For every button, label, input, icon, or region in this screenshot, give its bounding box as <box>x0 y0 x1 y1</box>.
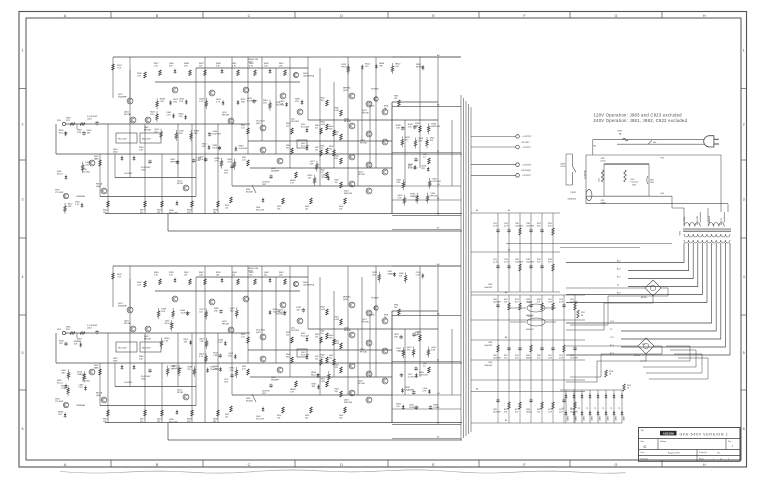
svg-text:100: 100 <box>305 418 308 420</box>
svg-text:HSx: HSx <box>653 142 656 144</box>
svg-text:51R: 51R <box>339 209 343 211</box>
svg-text:3: 3 <box>22 197 24 201</box>
svg-text:1R6: 1R6 <box>173 102 178 104</box>
svg-text:1uF/100V: 1uF/100V <box>239 148 248 150</box>
svg-text:RD-6.20H: RD-6.20H <box>301 146 310 148</box>
svg-text:1N4003: 1N4003 <box>600 416 602 421</box>
svg-text:LT1-100R: LT1-100R <box>55 192 64 194</box>
svg-text:51R: 51R <box>280 103 284 105</box>
svg-text:5.1K: 5.1K <box>169 275 174 277</box>
svg-text:H: H <box>703 463 706 467</box>
svg-text:RF7246: RF7246 <box>360 352 367 354</box>
svg-text:D: D <box>340 463 343 467</box>
svg-text:2R2: 2R2 <box>407 349 412 351</box>
svg-text:A1: A1 <box>508 209 510 212</box>
svg-text:Thermistor: Thermistor <box>630 181 639 184</box>
svg-text:R911: R911 <box>504 299 508 301</box>
svg-text:R911: R911 <box>581 312 585 314</box>
svg-text:- OUTPUT: - OUTPUT <box>522 175 532 177</box>
svg-text:PLB: PLB <box>57 329 61 331</box>
svg-text:0.1uF: 0.1uF <box>559 301 563 303</box>
svg-text:RFF9246: RFF9246 <box>344 193 352 195</box>
svg-text:AC2: AC2 <box>617 268 621 271</box>
svg-text:BR1S+: BR1S+ <box>641 297 648 299</box>
svg-text:1.8K: 1.8K <box>199 275 204 277</box>
svg-text:220: 220 <box>187 369 191 371</box>
svg-text:CA5TGR70A: CA5TGR70A <box>303 284 315 287</box>
svg-text:12kuF/63V: 12kuF/63V <box>493 357 502 359</box>
svg-text:A8: A8 <box>505 291 507 294</box>
svg-text:0.47R: 0.47R <box>335 343 340 345</box>
svg-text:RD-6.20H: RD-6.20H <box>169 213 178 215</box>
svg-text:4.1K: 4.1K <box>242 160 246 162</box>
svg-text:R985: R985 <box>537 299 541 301</box>
svg-text:22R: 22R <box>66 120 70 122</box>
svg-text:A6: A6 <box>505 336 507 339</box>
svg-text:C2: C2 <box>610 329 612 331</box>
svg-text:22R: 22R <box>66 329 70 331</box>
svg-text:15K: 15K <box>249 275 253 277</box>
svg-text:4.7K: 4.7K <box>408 126 413 128</box>
svg-text:1.8K: 1.8K <box>139 359 144 361</box>
svg-text:1N4003: 1N4003 <box>584 416 586 421</box>
svg-text:12kuF/63V: 12kuF/63V <box>493 301 502 303</box>
svg-text:220: 220 <box>225 208 228 210</box>
svg-text:1.8K: 1.8K <box>196 160 201 162</box>
svg-text:E1: E1 <box>437 436 440 438</box>
svg-text:22R: 22R <box>329 338 333 340</box>
svg-text:8.2K: 8.2K <box>537 261 541 263</box>
svg-text:(C988): (C988) <box>601 202 606 204</box>
svg-text:Aug-12-1993: Aug-12-1993 <box>668 452 680 455</box>
svg-text:1.8K: 1.8K <box>396 128 401 130</box>
svg-text:16H: 16H <box>95 159 99 161</box>
svg-text:12kuF/63V: 12kuF/63V <box>570 357 579 359</box>
svg-text:Q622: Q622 <box>256 123 261 125</box>
svg-text:220: 220 <box>396 406 400 408</box>
svg-text:1N4003: 1N4003 <box>592 416 594 421</box>
svg-text:2SA18HF: 2SA18HF <box>271 170 280 173</box>
svg-text:A4: A4 <box>437 54 440 57</box>
svg-text:0.47R: 0.47R <box>335 319 340 321</box>
svg-text:G: G <box>615 463 618 467</box>
svg-text:Size: Size <box>641 441 645 443</box>
svg-text:R985: R985 <box>537 409 541 411</box>
svg-text:5.1K: 5.1K <box>416 275 421 277</box>
svg-text:Number: Number <box>660 441 667 443</box>
svg-text:4.7K: 4.7K <box>215 161 220 163</box>
svg-text:RF51B: RF51B <box>177 392 184 394</box>
svg-text:D985: D985 <box>370 106 375 108</box>
svg-text:PLB: PLB <box>57 120 61 122</box>
svg-text:C982: C982 <box>493 299 497 301</box>
svg-text:8.2K: 8.2K <box>537 225 541 227</box>
svg-text:F: F <box>523 463 526 467</box>
svg-text:100: 100 <box>315 150 318 152</box>
svg-text:B1002E: B1002E <box>246 192 253 194</box>
svg-text:HS4: HS4 <box>661 193 664 195</box>
svg-text:C923: C923 <box>630 179 634 181</box>
svg-text:Q666: Q666 <box>96 395 101 397</box>
svg-text:C617: C617 <box>262 393 266 395</box>
svg-text:F: F <box>523 14 526 18</box>
svg-text:Rev: Rev <box>728 441 731 443</box>
svg-text:E1: E1 <box>437 227 440 229</box>
svg-text:2.2K: 2.2K <box>79 387 84 389</box>
svg-text:0.1uF/100V: 0.1uF/100V <box>172 368 183 370</box>
svg-text:3.3K: 3.3K <box>431 350 436 352</box>
svg-text:C: C <box>248 463 251 467</box>
svg-text:2.2K: 2.2K <box>264 66 269 68</box>
svg-text:220: 220 <box>321 333 324 335</box>
svg-text:C981: C981 <box>570 299 574 301</box>
svg-text:12kuF/63V: 12kuF/63V <box>493 411 502 413</box>
svg-text:15K: 15K <box>184 275 188 277</box>
svg-text:CA5TGR70A: CA5TGR70A <box>303 75 315 78</box>
svg-text:3: 3 <box>743 197 745 201</box>
svg-text:D988: D988 <box>526 355 530 357</box>
svg-text:RF521B: RF521B <box>222 115 230 117</box>
svg-text:B5: B5 <box>437 314 440 316</box>
svg-text:POWER: POWER <box>371 89 379 91</box>
svg-text:C911: C911 <box>548 409 552 411</box>
svg-text:15K: 15K <box>295 101 299 103</box>
svg-text:0.47R: 0.47R <box>321 124 326 126</box>
svg-text:240V Operation: J981, J982, C: 240V Operation: J981, J982, C922 exclude… <box>594 118 688 123</box>
svg-text:1R6: 1R6 <box>179 101 184 103</box>
svg-text:10K: 10K <box>394 307 398 309</box>
svg-text:C911: C911 <box>548 355 552 357</box>
svg-text:0.1uF: 0.1uF <box>548 301 552 303</box>
svg-text:8.2K: 8.2K <box>504 357 508 359</box>
svg-text:47uF/100V: 47uF/100V <box>181 312 191 314</box>
svg-text:D988: D988 <box>526 409 530 411</box>
svg-text:SP RIGHT: SP RIGHT <box>522 170 532 172</box>
svg-text:RF7246: RF7246 <box>341 67 349 69</box>
svg-text:D662: D662 <box>113 152 118 154</box>
svg-text:Sheet: Sheet <box>699 457 704 460</box>
svg-text:1.8K: 1.8K <box>214 368 219 370</box>
svg-text:F981: F981 <box>618 130 622 132</box>
svg-text:A2: A2 <box>505 419 507 422</box>
svg-text:YELLOW: YELLOW <box>697 215 699 225</box>
svg-text:MPF9246: MPF9246 <box>171 162 181 164</box>
svg-text:C4: C4 <box>437 393 440 395</box>
svg-text:220: 220 <box>329 149 332 151</box>
svg-text:2.2K: 2.2K <box>160 101 165 103</box>
svg-text:RD-6.2E4: RD-6.2E4 <box>212 147 222 149</box>
svg-text:8.2K: 8.2K <box>504 301 508 303</box>
svg-text:G926: G926 <box>248 271 253 273</box>
svg-text:5.6: 5.6 <box>423 157 426 159</box>
svg-text:1N4003: 1N4003 <box>568 416 570 421</box>
svg-text:1R6: 1R6 <box>161 311 166 313</box>
svg-text:RF7246: RF7246 <box>358 174 365 176</box>
svg-text:RD-6.2: RD-6.2 <box>57 383 63 385</box>
svg-text:D9-: D9- <box>619 406 621 409</box>
svg-text:2SA18HF: 2SA18HF <box>271 379 280 382</box>
svg-text:2SA18HF: 2SA18HF <box>77 373 86 376</box>
svg-text:0.1uF: 0.1uF <box>504 225 508 227</box>
svg-text:4.7R: 4.7R <box>290 392 294 394</box>
svg-text:220: 220 <box>157 212 160 214</box>
svg-text:4: 4 <box>743 275 745 279</box>
svg-text:2.2K: 2.2K <box>61 388 66 390</box>
svg-text:7.5K: 7.5K <box>117 68 122 70</box>
svg-text:1R6: 1R6 <box>214 311 219 313</box>
svg-text:SP LEFT: SP LEFT <box>522 142 531 144</box>
svg-text:22R: 22R <box>59 343 63 345</box>
svg-text:GFA-5400 VERSION 1: GFA-5400 VERSION 1 <box>680 432 729 436</box>
svg-text:12kuF/63V: 12kuF/63V <box>484 365 493 367</box>
svg-text:4.7K: 4.7K <box>418 141 423 143</box>
svg-text:Q616: Q616 <box>343 299 348 301</box>
svg-text:C981: C981 <box>570 355 574 357</box>
svg-text:Drawn by: Drawn by <box>699 452 707 454</box>
svg-text:1N4003: 1N4003 <box>624 416 626 421</box>
svg-text:B1: B1 <box>437 198 440 200</box>
svg-text:180: 180 <box>184 341 188 343</box>
svg-text:TH904: TH904 <box>527 316 532 318</box>
svg-text:RD-6.20H: RD-6.20H <box>169 422 178 424</box>
svg-text:8A: 8A <box>619 132 622 135</box>
svg-text:R913: R913 <box>515 355 519 357</box>
svg-text:+ OUTPUT: + OUTPUT <box>522 136 533 138</box>
svg-text:1R6: 1R6 <box>335 391 338 393</box>
svg-text:1.5K: 1.5K <box>137 76 142 78</box>
svg-text:4.7K: 4.7K <box>422 390 427 392</box>
svg-text:2SC2362: 2SC2362 <box>82 381 90 383</box>
svg-text:(C990): (C990) <box>601 161 606 163</box>
svg-text:220: 220 <box>329 358 332 360</box>
svg-text:220: 220 <box>232 275 235 277</box>
svg-text:2SC2362: 2SC2362 <box>82 172 90 174</box>
svg-text:9000R(S/U): 9000R(S/U) <box>568 199 577 201</box>
svg-text:C913: C913 <box>559 355 563 357</box>
svg-text:0.1uF: 0.1uF <box>493 225 497 227</box>
svg-text:5: 5 <box>22 351 24 355</box>
svg-text:22R: 22R <box>396 182 400 184</box>
svg-text:RD-6.20H: RD-6.20H <box>142 139 151 141</box>
svg-text:C: C <box>248 14 251 18</box>
svg-text:K1: K1 <box>617 285 619 287</box>
svg-text:CC4: CC4 <box>610 321 614 323</box>
svg-text:1N4003: 1N4003 <box>526 301 532 303</box>
svg-text:1uF/100V: 1uF/100V <box>419 374 428 376</box>
svg-text:51R: 51R <box>179 116 183 118</box>
svg-text:4.7K: 4.7K <box>216 66 221 68</box>
svg-text:100: 100 <box>199 312 203 314</box>
svg-text:1R6: 1R6 <box>379 65 384 67</box>
svg-text:5.1K: 5.1K <box>241 128 245 130</box>
svg-text:1N4003: 1N4003 <box>576 416 578 421</box>
svg-text:220: 220 <box>225 417 228 419</box>
svg-text:1N4003: 1N4003 <box>608 416 610 421</box>
svg-text:RFF9246: RFF9246 <box>344 402 352 404</box>
svg-text:RF7246: RF7246 <box>360 143 367 145</box>
svg-text:100: 100 <box>154 132 158 134</box>
svg-text:100: 100 <box>430 140 434 142</box>
svg-text:180: 180 <box>213 421 216 423</box>
svg-text:220: 220 <box>365 66 369 68</box>
svg-text:R911: R911 <box>504 355 508 357</box>
svg-text:T981: T981 <box>680 230 682 236</box>
svg-text:C984: C984 <box>488 342 492 344</box>
svg-text:0.1uF/100V: 0.1uF/100V <box>247 101 258 103</box>
svg-text:2R2: 2R2 <box>230 310 235 312</box>
svg-text:A: A <box>64 463 67 467</box>
svg-text:4.7K: 4.7K <box>227 162 232 164</box>
svg-text:Title: Title <box>641 429 644 432</box>
svg-text:4.7R: 4.7R <box>290 183 294 185</box>
svg-text:7.5K: 7.5K <box>117 277 122 279</box>
svg-text:0.47R: 0.47R <box>321 309 326 311</box>
svg-text:BC1: BC1 <box>617 277 621 279</box>
svg-text:4.1K: 4.1K <box>242 369 246 371</box>
svg-text:D988: D988 <box>526 299 530 301</box>
svg-text:470: 470 <box>140 212 143 214</box>
svg-text:2: 2 <box>743 123 745 127</box>
svg-text:90K-8S12: 90K-8S12 <box>526 329 534 331</box>
svg-text:22R: 22R <box>169 66 173 68</box>
svg-text:3.9K: 3.9K <box>537 301 541 303</box>
svg-text:R911: R911 <box>504 409 508 411</box>
svg-text:8.2K: 8.2K <box>515 301 519 303</box>
svg-text:6: 6 <box>22 427 24 431</box>
svg-text:RD-6.20H: RD-6.20H <box>256 210 265 212</box>
svg-text:0.1uF: 0.1uF <box>493 261 497 263</box>
svg-text:10K: 10K <box>394 98 398 100</box>
svg-text:RD-6.20H: RD-6.20H <box>165 323 174 325</box>
svg-text:RD-6.20H: RD-6.20H <box>118 139 127 141</box>
svg-text:2R2: 2R2 <box>286 357 289 359</box>
svg-text:220: 220 <box>315 337 318 339</box>
svg-text:100: 100 <box>399 275 403 277</box>
svg-text:RF511B: RF511B <box>124 323 132 325</box>
svg-text:0.1uF: 0.1uF <box>559 357 563 359</box>
svg-text:C985: C985 <box>488 362 492 364</box>
svg-text:C913: C913 <box>559 299 563 301</box>
svg-text:1.8K: 1.8K <box>139 150 144 152</box>
svg-text:220: 220 <box>157 421 160 423</box>
svg-text:220: 220 <box>315 128 318 130</box>
svg-text:4.7K: 4.7K <box>199 101 204 103</box>
svg-text:0.47R: 0.47R <box>321 381 326 383</box>
svg-text:12kuF/63V: 12kuF/63V <box>515 225 524 227</box>
svg-text:25uF/25V: 25uF/25V <box>278 312 287 314</box>
svg-text:RD-6.20H: RD-6.20H <box>301 127 310 129</box>
svg-text:D: D <box>644 444 647 449</box>
svg-text:R91B: R91B <box>609 371 613 373</box>
svg-text:10K: 10K <box>310 164 314 166</box>
svg-text:5.1K: 5.1K <box>241 337 245 339</box>
svg-text:Filename: Filename <box>641 458 648 460</box>
svg-text:4.7K: 4.7K <box>398 198 403 200</box>
svg-text:THERMAL: THERMAL <box>76 404 85 407</box>
svg-text:2SC2362: 2SC2362 <box>291 330 299 332</box>
svg-text:15K: 15K <box>216 275 220 277</box>
svg-text:D9-: D9- <box>595 406 597 409</box>
svg-text:R913: R913 <box>515 409 519 411</box>
svg-text:E: E <box>432 14 435 18</box>
svg-text:L1: L1 <box>437 359 440 361</box>
svg-text:C982: C982 <box>493 355 497 357</box>
svg-text:RD-6.20H: RD-6.20H <box>301 336 310 338</box>
svg-text:D9-: D9- <box>611 406 613 409</box>
svg-text:2R2: 2R2 <box>321 177 326 179</box>
svg-text:15K: 15K <box>308 178 312 180</box>
svg-text:100: 100 <box>315 359 318 361</box>
svg-text:12kuF/63V: 12kuF/63V <box>570 301 579 303</box>
svg-text:8.2K: 8.2K <box>515 411 519 413</box>
svg-text:5.1K: 5.1K <box>75 204 80 206</box>
svg-text:RD-6.20H: RD-6.20H <box>142 348 151 350</box>
svg-text:1R6: 1R6 <box>335 158 338 160</box>
svg-text:D: D <box>340 14 343 18</box>
svg-text:8.2K: 8.2K <box>548 225 552 227</box>
svg-text:180: 180 <box>213 212 216 214</box>
svg-text:C4: C4 <box>437 184 440 186</box>
svg-text:AC3: AC3 <box>610 352 614 355</box>
svg-text:B1002E: B1002E <box>246 401 253 403</box>
svg-text:RD-6.2: RD-6.2 <box>57 174 63 176</box>
svg-text:22R: 22R <box>279 275 283 277</box>
svg-text:AC1: AC1 <box>617 260 621 263</box>
svg-text:A1: A1 <box>476 209 478 212</box>
svg-text:C601: C601 <box>87 328 93 330</box>
svg-text:C92a: C92a <box>599 178 601 182</box>
svg-text:RD-6.2E4: RD-6.2E4 <box>59 133 69 135</box>
svg-text:RF51B: RF51B <box>177 183 184 185</box>
svg-text:22R: 22R <box>321 100 325 102</box>
svg-text:R91Q: R91Q <box>627 385 632 387</box>
svg-text:22R: 22R <box>200 341 204 343</box>
svg-text:1R6: 1R6 <box>87 133 92 135</box>
svg-text:4R: 4R <box>581 315 584 317</box>
svg-text:22R: 22R <box>335 134 339 136</box>
svg-text:RF7246: RF7246 <box>362 113 369 115</box>
svg-text:2R2: 2R2 <box>286 148 289 150</box>
svg-text:10K: 10K <box>395 66 399 68</box>
svg-text:12kuF/63V: 12kuF/63V <box>515 261 524 263</box>
svg-text:220: 220 <box>321 148 324 150</box>
svg-text:+ OUTPUT: + OUTPUT <box>522 165 533 167</box>
svg-text:G: G <box>615 14 618 18</box>
svg-text:22R: 22R <box>184 66 188 68</box>
svg-text:51R: 51R <box>339 418 343 420</box>
svg-text:CC2: CC2 <box>610 337 614 339</box>
svg-text:Date: Date <box>641 451 645 454</box>
svg-text:1R6: 1R6 <box>321 357 324 359</box>
svg-text:1R: 1R <box>609 374 612 376</box>
svg-text:MPF9246: MPF9246 <box>431 126 441 128</box>
svg-text:C982: C982 <box>493 409 497 411</box>
svg-text:2SC2362: 2SC2362 <box>432 181 441 183</box>
svg-text:2.2K: 2.2K <box>164 341 169 343</box>
svg-text:RF511B: RF511B <box>124 114 132 116</box>
svg-text:4.7K: 4.7K <box>199 356 204 358</box>
svg-text:D9-: D9- <box>603 406 605 409</box>
svg-text:0.1uF: 0.1uF <box>559 411 563 413</box>
svg-text:16H: 16H <box>95 368 99 370</box>
svg-text:51R: 51R <box>277 418 281 420</box>
svg-text:1N4003: 1N4003 <box>616 416 618 421</box>
svg-text:0.47R: 0.47R <box>335 110 340 112</box>
svg-text:15K: 15K <box>150 114 154 116</box>
svg-text:ADCOM: ADCOM <box>663 432 675 436</box>
svg-text:1.8K: 1.8K <box>241 101 246 103</box>
svg-text:2.2K: 2.2K <box>218 342 223 344</box>
